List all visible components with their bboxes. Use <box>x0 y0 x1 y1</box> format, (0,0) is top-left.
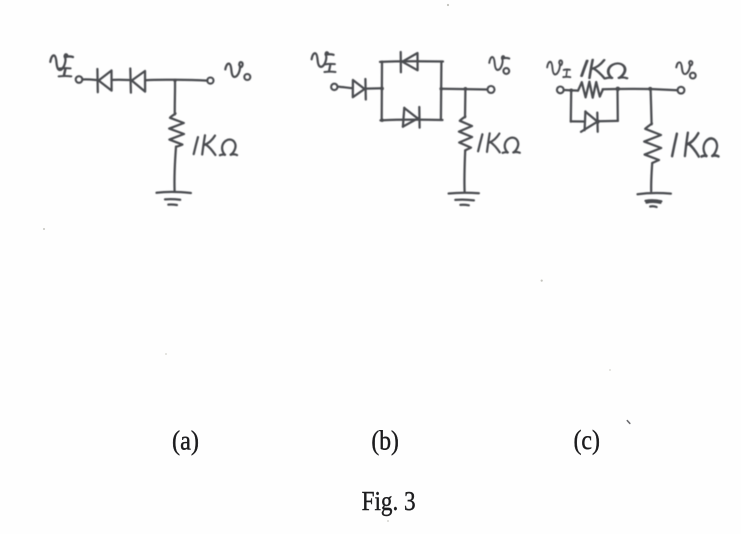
output terminal (c) <box>678 87 685 94</box>
resistor R3 (horizontal) <box>578 82 603 98</box>
node at left rail <box>380 87 384 91</box>
wire R2 to ground <box>463 151 466 192</box>
node junction (c) <box>648 87 652 91</box>
label vO (a) <box>225 62 250 80</box>
faint speck right-lower area <box>609 369 611 371</box>
resistor R1 <box>169 114 184 147</box>
label vO (b) <box>489 56 509 74</box>
node junction (b) <box>464 87 468 91</box>
input terminal (b) <box>331 84 337 90</box>
wire D2 to output terminal (a) <box>145 79 207 82</box>
wire D1 to D2 <box>112 79 130 82</box>
diode D3 <box>353 79 366 100</box>
label vI (a) <box>50 54 73 76</box>
ground (c) <box>638 193 671 207</box>
diode D1 <box>97 69 111 92</box>
top rail wire <box>380 60 443 63</box>
wire input to D1 <box>83 78 97 81</box>
right rail wire <box>440 62 443 121</box>
ground (a) <box>157 192 191 205</box>
wire input to D3 <box>338 87 352 89</box>
label vI (b) <box>312 52 336 72</box>
diode D6 <box>581 111 599 131</box>
resistor R2 <box>459 117 472 151</box>
faint speck below Fig 3 <box>387 520 389 522</box>
svg-text:(c): (c) <box>573 425 600 455</box>
svg-text:Fig. 3: Fig. 3 <box>362 485 416 516</box>
faint speck top middle <box>447 4 449 6</box>
wire junction down to R1 <box>174 81 177 115</box>
diode D2 <box>130 69 145 93</box>
stray pencil speck near (c) caption <box>627 421 630 424</box>
node after R3 <box>616 87 621 92</box>
label 1KOhm right (c) <box>672 133 718 157</box>
node bottom-left corner <box>380 118 384 122</box>
input terminal (a) <box>76 76 83 83</box>
wire R4 to ground <box>651 163 652 191</box>
label 1KOhm (a) <box>194 135 237 155</box>
faint speck lower-left area <box>165 353 167 355</box>
wire junction down to R4 <box>651 89 652 124</box>
diode D5 (bottom branch) <box>403 107 420 128</box>
label vI (c) <box>547 60 570 77</box>
input terminal (c) <box>557 87 564 94</box>
bottom-left wire of loop <box>571 120 584 122</box>
bottom rail wire <box>381 119 443 122</box>
svg-text:(b): (b) <box>371 426 399 456</box>
wire R1 to ground <box>174 147 176 191</box>
wire input to R3 <box>564 89 578 92</box>
node top-left of loop <box>569 89 573 93</box>
ground (b) <box>449 193 479 206</box>
faint speck right middle <box>541 280 543 282</box>
label 1KOhm top (c) <box>582 60 627 79</box>
wire junction to output terminal (c) <box>650 89 677 90</box>
wire junction down to R2 <box>464 89 467 117</box>
output terminal (b) <box>488 86 495 93</box>
wire R3 to output terminal (c) <box>603 88 649 91</box>
output terminal (a) <box>207 78 213 84</box>
label 1KOhm (b) <box>478 133 520 153</box>
left rail wire <box>381 62 384 121</box>
wire box to output terminal (b) <box>441 88 487 91</box>
resistor R4 <box>644 124 661 164</box>
bottom-right wire of loop <box>598 120 618 123</box>
node at right rail (b) <box>439 87 443 91</box>
node junction (a) <box>173 79 176 82</box>
left leg of diode loop <box>570 90 573 121</box>
svg-text:(a): (a) <box>172 426 199 456</box>
diode D4 (top branch) <box>401 52 418 72</box>
label vO (c) <box>676 61 695 79</box>
wire D3 to box <box>366 87 382 90</box>
right leg of loop <box>616 89 619 121</box>
